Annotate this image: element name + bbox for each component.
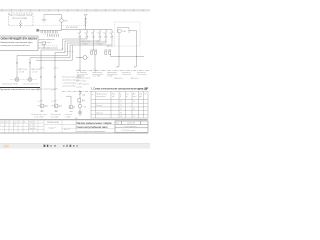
svg-text:выкл: выкл: [133, 96, 137, 98]
svg-text:10: 10: [120, 109, 122, 111]
input feeder text block: [77, 77, 91, 89]
svg-text:Магазин промышленных товаров: Магазин промышленных товаров: [77, 123, 113, 125]
svg-text:1. Схема электрическая принцип: 1. Схема электрическая принципиальная щи…: [91, 87, 149, 90]
wire bridge: [44, 14, 62, 16]
lamp labels row: [2, 84, 39, 86]
PE device: [42, 42, 45, 48]
svg-text:освещения и розеточной сети: освещения и розеточной сети: [1, 44, 31, 47]
title block bottom rule: [0, 132, 148, 134]
svg-text:Изм: Изм: [0, 121, 3, 123]
drop2 hook: [135, 67, 137, 69]
feeder wire: [94, 54, 96, 70]
text panel box: [0, 36, 38, 51]
switchboard left bus with terminal ticks: [39, 29, 112, 32]
svg-text:1 2 3 4 5 6 7 8 9: 1 2 3 4 5 6 7 8 9: [41, 33, 58, 35]
meter circle: [60, 19, 64, 23]
svg-text:ВВГ 3х2,5: ВВГ 3х2,5: [131, 78, 139, 80]
boundary crossing marks: [79, 69, 96, 71]
svg-text:Да: Да: [23, 121, 25, 123]
chain lamp: [79, 111, 82, 114]
kWh meter branch wire: [79, 36, 81, 70]
svg-text:ВВГ 3х2,5: ВВГ 3х2,5: [115, 78, 123, 80]
svg-text:Схема электроснабжения павил.: Схема электроснабжения павил.: [77, 127, 109, 129]
svg-text:12-345-ЭМ: 12-345-ЭМ: [127, 122, 136, 124]
feeder N2 arrow: [54, 76, 56, 78]
svg-text:Wh: Wh: [84, 107, 87, 109]
svg-text:Пров: Пров: [29, 128, 33, 130]
riser jog wire from QF5: [68, 36, 107, 43]
boundary labels: [77, 72, 145, 74]
svg-text:QF3: QF3: [92, 37, 95, 39]
svg-text:1,2 кВт: 1,2 кВт: [32, 72, 38, 74]
dash-dot boundary center: [62, 91, 92, 93]
lamp group N3: [15, 78, 19, 82]
svg-text:Пр: Пр: [144, 94, 146, 96]
cable labels under drops: [115, 78, 139, 80]
svg-text:3N~: 3N~: [84, 15, 89, 17]
label second rows: [77, 75, 113, 78]
feeder N1 mid tick: [40, 67, 43, 68]
drop wire 1: [118, 57, 120, 67]
title block right box: [115, 121, 148, 133]
dashed lamp line left: [10, 79, 37, 81]
feeder wire: [110, 54, 112, 56]
svg-text:мм2: мм2: [139, 96, 142, 98]
cabinet drop wire: [118, 33, 120, 57]
svg-text:Кол: Кол: [5, 121, 8, 123]
svg-text:в трубе: в трубе: [82, 44, 88, 46]
svg-text:Вводной кабель: Вводной кабель: [77, 77, 91, 80]
junction: [43, 47, 44, 48]
breaker QF4: [99, 30, 101, 37]
svg-text:16: 16: [84, 32, 86, 34]
meter horizontal wire: [76, 57, 89, 59]
svg-text:нулевая защитная: нулевая защитная: [39, 39, 55, 41]
svg-text:16: 16: [133, 101, 135, 103]
chain cross mark: [79, 93, 81, 94]
riser jog wire from QF2: [63, 36, 88, 39]
svg-text:розеточная: розеточная: [93, 72, 102, 74]
junction: [136, 56, 137, 57]
device cluster A: [91, 51, 97, 54]
svg-text:Схема электрическая принципиал: Схема электрическая принципиальн.: [77, 131, 106, 133]
breaker QF1: [79, 30, 81, 37]
svg-text:вв. автомат: вв. автомат: [77, 72, 87, 74]
svg-text:2: 2: [51, 101, 52, 103]
breaker QF3: [93, 30, 95, 37]
distribution wire right: [111, 56, 145, 58]
svg-text:2: 2: [43, 68, 44, 70]
cabinet dashed enclosure (top-left unit): [9, 13, 34, 26]
svg-text:Светильники ЛПО: Светильники ЛПО: [2, 84, 18, 86]
svg-text:16: 16: [133, 109, 135, 111]
label underlines: [77, 73, 147, 75]
main feeder chain wire: [79, 92, 81, 117]
toolbar icons group1: [44, 145, 49, 147]
kWh meter: [83, 56, 87, 60]
bus end fuse block: [36, 29, 39, 31]
feeder N1 arrow: [40, 76, 42, 78]
svg-text:1,0кВт: 1,0кВт: [65, 116, 70, 118]
device cluster B: [105, 51, 111, 54]
svg-text:ЩР 380/220В: ЩР 380/220В: [66, 27, 78, 29]
motor M3 label: [65, 114, 72, 118]
svg-text:QF2: QF2: [85, 37, 88, 39]
svg-text:ЯТП-0,25 220/36В: ЯТП-0,25 220/36В: [12, 18, 28, 20]
boundary crossing mark: [79, 90, 82, 92]
svg-text:1,2,3 2,2кВт: 1,2,3 2,2кВт: [34, 116, 44, 118]
junction: [118, 56, 119, 57]
drop wire 2: [136, 57, 138, 67]
bundle gauge marks: [62, 49, 74, 52]
svg-text:kWh: kWh: [64, 20, 68, 22]
title block top rule: [0, 119, 148, 121]
svg-text:12: 12: [14, 125, 16, 127]
svg-text:QF5: QF5: [104, 37, 107, 39]
svg-text:ВВГнг 5х10: ВВГнг 5х10: [77, 81, 87, 83]
svg-text:Групповая осветительная сеть щ: Групповая осветительная сеть щита ЩО: [0, 89, 40, 91]
svg-text:УЗО 25А: УЗО 25А: [104, 48, 112, 51]
chain device box: [78, 99, 81, 102]
svg-text:16: 16: [133, 116, 135, 118]
cabinet inner device: [118, 28, 130, 34]
svg-text:с заземляющим: с заземляющим: [62, 83, 77, 85]
toolbar icons group2: [63, 145, 78, 147]
svg-text:конвектор: конвектор: [137, 72, 145, 74]
svg-text:4,5 2,2кВт: 4,5 2,2кВт: [50, 116, 58, 118]
wire from QF3 down: [93, 36, 95, 51]
heater cabinet dashed box: [115, 22, 141, 46]
riser bundle wire 4 to feeder N4: [30, 45, 70, 78]
svg-text:Каб.: Каб.: [139, 94, 143, 96]
riser bundle wire 5: [36, 46, 73, 61]
group boundary rule left: [0, 87, 40, 89]
revision grid text: [0, 120, 36, 130]
motor M1: [38, 104, 48, 112]
breaker QF5: [105, 30, 107, 37]
svg-text:2: 2: [57, 68, 58, 70]
motor M3: [69, 105, 74, 112]
svg-text:ГИП: ГИП: [29, 121, 32, 123]
riser jog wire from QF6: [70, 36, 112, 45]
svg-text:СХЕМА ПИТАЮЩЕЙ СЕТИ 380/220 В: СХЕМА ПИТАЮЩЕЙ СЕТИ 380/220 В: [1, 37, 38, 40]
svg-text:2: 2: [51, 89, 52, 91]
riser bundle wire 2 to feeder N2: [55, 41, 65, 104]
revision grid: [0, 120, 115, 133]
motor M1 label: [32, 114, 47, 118]
svg-text:2,0 кВт: 2,0 кВт: [107, 76, 113, 78]
svg-text:кВт: кВт: [112, 96, 115, 98]
ruler ticks: [2, 9, 143, 11]
lamp group N4: [28, 78, 32, 82]
svg-text:16: 16: [97, 32, 99, 34]
svg-text:Лист 5: Лист 5: [64, 129, 69, 131]
junction: [79, 57, 80, 58]
table data marks: [96, 101, 135, 118]
svg-text:Водонагр.: Водонагр.: [96, 112, 104, 114]
viewer toolbar: [0, 143, 150, 148]
svg-text:0,9 кВт: 0,9 кВт: [19, 72, 25, 74]
svg-text:потребителя: потребителя: [96, 96, 105, 98]
sheet top border ruler: [0, 10, 150, 11]
svg-text:123-45-ЭОМ: 123-45-ЭОМ: [47, 122, 59, 124]
svg-text:10: 10: [120, 105, 122, 107]
svg-text:Светильники НСП: Светильники НСП: [23, 84, 40, 86]
svg-text:Наименование: Наименование: [96, 94, 107, 96]
svg-text:Изм: Изм: [116, 122, 119, 124]
dash-dot boundary right: [76, 70, 150, 72]
svg-text:QF4: QF4: [98, 37, 101, 39]
svg-text:5,5: 5,5: [120, 101, 122, 103]
svg-text:16: 16: [109, 32, 111, 34]
input feeder wire: [85, 16, 87, 30]
svg-text:16: 16: [78, 32, 80, 34]
cabinet output wire: [129, 31, 137, 57]
meter PI1 feeder wire: [61, 15, 63, 31]
svg-text:конвектор: конвектор: [122, 72, 130, 74]
svg-text:По: По: [18, 121, 20, 123]
svg-text:контактом 16А: контактом 16А: [62, 85, 76, 88]
feeder N5 stub wire: [66, 96, 71, 104]
right box text: [116, 122, 137, 132]
feeder N1 tick2: [39, 100, 42, 101]
toolbar logo tint: [4, 145, 10, 148]
feeder N2 mid tick: [54, 67, 57, 68]
svg-text:ВВГ 3х2,5: ВВГ 3х2,5: [107, 46, 115, 48]
PE bus wire: [37, 47, 58, 49]
dashed boundary line to switchboard: [33, 25, 86, 27]
svg-text:2: 2: [37, 101, 38, 103]
drop1 hook: [117, 67, 119, 69]
svg-text:Наименование потребителей щита: Наименование потребителей щита: [1, 41, 34, 44]
riser bundle wire 3 to feeder N3: [17, 43, 68, 78]
svg-text:2: 2: [37, 89, 38, 91]
schedule table: [91, 92, 148, 119]
breaker QF6: [111, 30, 113, 37]
riser jog wire from QF4: [65, 36, 100, 41]
riser bundle wire 1 to feeder N1: [41, 39, 63, 104]
svg-text:сеть 16А: сеть 16А: [93, 75, 101, 78]
svg-text:Схема групповая: Схема групповая: [124, 126, 137, 128]
svg-text:QF1: QF1: [78, 37, 81, 39]
table header text: [92, 93, 147, 98]
svg-text:Руст,: Руст,: [112, 94, 116, 96]
junction: [85, 25, 86, 26]
input switch QS1: [84, 19, 86, 25]
chain meter: [78, 105, 81, 108]
feeder N4 arrow: [29, 62, 31, 64]
svg-text:Исп: Исп: [29, 125, 32, 127]
terminal ticks row1: [41, 31, 57, 34]
svg-text:Стадия Р: Стадия Р: [48, 128, 57, 130]
svg-text:6,8: 6,8: [120, 116, 122, 118]
svg-text:9,1: 9,1: [120, 112, 122, 114]
feeder N3 arrow: [16, 62, 18, 64]
svg-text:Розетки: Розетки: [96, 105, 102, 107]
feeder N2 tick label: [53, 89, 56, 90]
breaker labels: [78, 32, 114, 38]
lamp EL1: [19, 20, 22, 28]
svg-text:cos: cos: [126, 94, 129, 96]
svg-text:L=25м: L=25м: [77, 87, 83, 89]
upper dashed boundary (second cabinet): [36, 45, 58, 47]
svg-text:QF6: QF6: [110, 37, 113, 39]
notes text block right of feeders: [62, 77, 81, 88]
svg-text:водонагрев.: водонагрев.: [107, 72, 118, 74]
feeder N2 tick2: [53, 100, 56, 101]
motor M2 label: [50, 114, 61, 118]
feeder N1 tick label: [39, 89, 42, 90]
motor M2: [52, 104, 62, 112]
terminal ticks row2: [48, 34, 59, 37]
svg-text:УЗО 25А: УЗО 25А: [90, 48, 98, 51]
ground symbol: [42, 15, 47, 23]
svg-text:16: 16: [103, 32, 105, 34]
svg-text:Ящик с понижающим трансф.: Ящик с понижающим трансф.: [9, 14, 33, 17]
svg-text:16: 16: [91, 32, 93, 34]
svg-text:в трубе: в трубе: [97, 44, 103, 46]
svg-text:от ВРУ здания: от ВРУ здания: [77, 84, 90, 86]
breaker QF2: [86, 30, 88, 37]
